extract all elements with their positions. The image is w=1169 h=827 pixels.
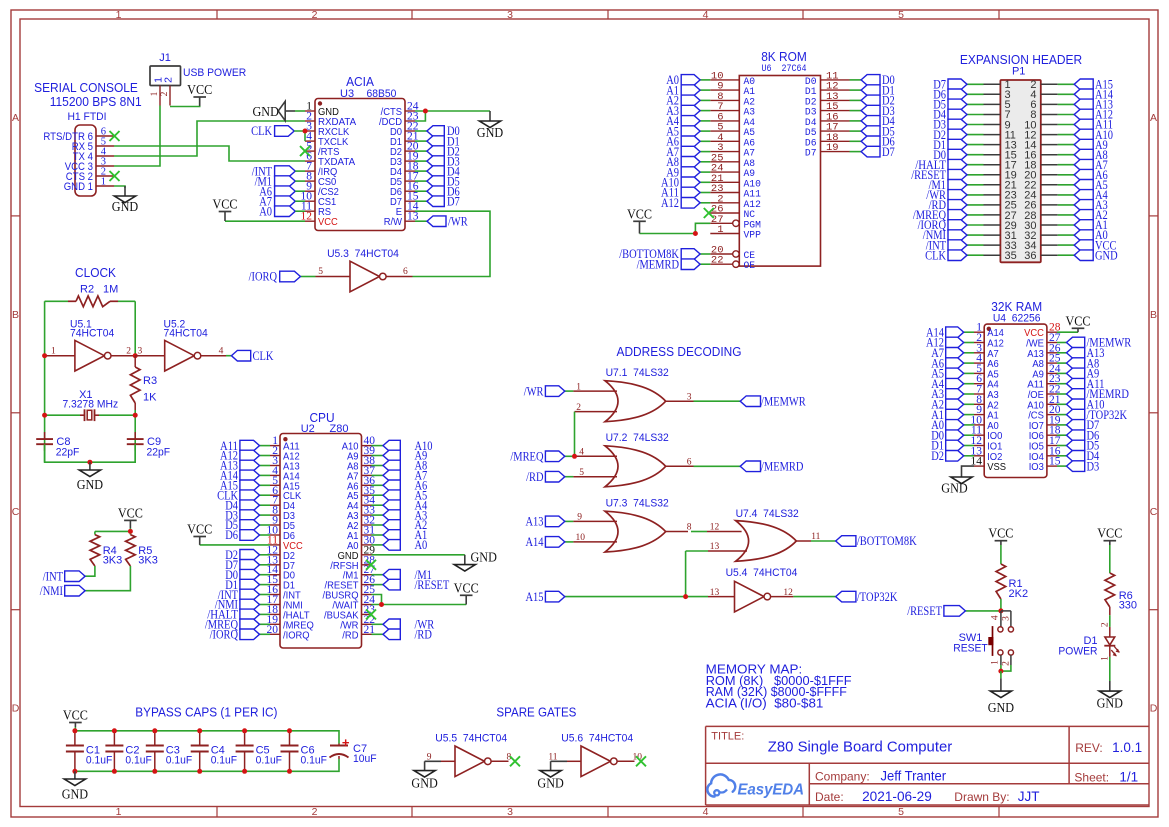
- svg-text:R/W: R/W: [384, 216, 402, 228]
- svg-text:VCC: VCC: [454, 581, 479, 596]
- svg-text:1M: 1M: [103, 283, 118, 295]
- svg-text:U6 27C64: U6 27C64: [762, 63, 807, 75]
- svg-text:1: 1: [51, 347, 56, 357]
- svg-text:74HCT04: 74HCT04: [70, 328, 114, 340]
- svg-text:1: 1: [116, 806, 122, 818]
- svg-text:TITLE:: TITLE:: [711, 731, 744, 743]
- svg-text:330: 330: [1119, 600, 1137, 612]
- svg-text:2: 2: [312, 806, 318, 818]
- svg-text:C: C: [12, 506, 20, 518]
- svg-text:D7: D7: [882, 144, 895, 159]
- svg-text:POWER: POWER: [1058, 645, 1097, 657]
- svg-text:CLK: CLK: [251, 123, 272, 138]
- svg-text:RESET: RESET: [953, 643, 988, 655]
- svg-text:U5.3 74HCT04: U5.3 74HCT04: [327, 248, 399, 260]
- svg-text:3: 3: [507, 9, 513, 21]
- svg-text:/INT: /INT: [43, 568, 63, 583]
- svg-text:USB POWER: USB POWER: [183, 67, 246, 79]
- svg-text:1: 1: [717, 224, 723, 236]
- svg-text:/NMI: /NMI: [40, 583, 63, 598]
- svg-text:CLK: CLK: [253, 348, 274, 363]
- svg-text:10uF: 10uF: [353, 753, 377, 765]
- svg-text:/IORQ: /IORQ: [249, 269, 278, 284]
- svg-text:3: 3: [687, 392, 692, 402]
- svg-text:0.1uF: 0.1uF: [125, 754, 152, 766]
- svg-text:R3: R3: [143, 375, 157, 387]
- svg-text:0.1uF: 0.1uF: [301, 754, 328, 766]
- svg-text:2: 2: [160, 91, 170, 96]
- svg-text:3K3: 3K3: [103, 555, 123, 567]
- svg-text:Date:: Date:: [815, 790, 844, 804]
- svg-text:SERIAL CONSOLE: SERIAL CONSOLE: [34, 80, 138, 95]
- svg-text:2: 2: [576, 403, 581, 413]
- svg-text:C: C: [1150, 506, 1158, 518]
- svg-text:A: A: [1150, 112, 1157, 124]
- svg-text:4: 4: [703, 9, 709, 21]
- svg-text:ADDRESS DECODING: ADDRESS DECODING: [617, 344, 742, 359]
- svg-text:9: 9: [577, 513, 582, 523]
- svg-text:A15: A15: [526, 589, 544, 604]
- svg-text:1: 1: [991, 660, 1001, 665]
- svg-text:/MREQ: /MREQ: [510, 449, 544, 464]
- svg-text:VCC: VCC: [627, 207, 652, 222]
- svg-text:/RESET: /RESET: [415, 577, 450, 592]
- svg-text:5: 5: [579, 468, 584, 478]
- svg-text:VCC: VCC: [187, 83, 212, 98]
- svg-text:A0: A0: [259, 203, 272, 218]
- svg-text:D3: D3: [1087, 458, 1100, 473]
- svg-text:12: 12: [783, 588, 793, 598]
- svg-text:A: A: [12, 112, 19, 124]
- svg-text:Drawn By:: Drawn By:: [954, 790, 1009, 804]
- svg-text:GND: GND: [477, 126, 503, 141]
- svg-text:7.3278 MHz: 7.3278 MHz: [62, 399, 118, 411]
- svg-text:D6: D6: [225, 527, 238, 542]
- svg-text:J1: J1: [159, 52, 171, 64]
- svg-text:3K3: 3K3: [138, 555, 158, 567]
- svg-text:P1: P1: [1012, 66, 1025, 78]
- svg-text:4: 4: [703, 806, 709, 818]
- svg-text:5: 5: [898, 806, 904, 818]
- svg-text:0.1uF: 0.1uF: [211, 754, 238, 766]
- svg-text:B: B: [1150, 309, 1157, 321]
- svg-text:ACIA (I/O) $80-$81: ACIA (I/O) $80-$81: [706, 695, 824, 710]
- svg-text:GND: GND: [988, 701, 1014, 716]
- svg-text:VCC: VCC: [118, 506, 143, 521]
- svg-text:GND: GND: [411, 776, 437, 791]
- svg-text:U4 62256: U4 62256: [993, 312, 1041, 324]
- svg-text:Sheet:: Sheet:: [1074, 771, 1109, 785]
- svg-text:6: 6: [687, 458, 692, 468]
- svg-text:VCC: VCC: [988, 527, 1013, 542]
- svg-text:D7: D7: [805, 148, 817, 160]
- svg-text:5: 5: [898, 9, 904, 21]
- svg-text:U7.4 74LS32: U7.4 74LS32: [736, 508, 799, 520]
- svg-text:/RD: /RD: [415, 627, 432, 642]
- svg-text:1/1: 1/1: [1119, 770, 1138, 785]
- svg-text:VCC: VCC: [318, 216, 338, 228]
- svg-text:OE: OE: [744, 260, 756, 272]
- svg-text:/IORQ: /IORQ: [210, 627, 239, 642]
- svg-text:35: 35: [1005, 250, 1017, 262]
- svg-text:VSS: VSS: [987, 461, 1006, 473]
- svg-text:Company:: Company:: [815, 770, 870, 784]
- svg-text:/WR: /WR: [448, 213, 468, 228]
- svg-text:/MEMRD: /MEMRD: [761, 459, 803, 474]
- svg-text:VPP: VPP: [744, 230, 761, 242]
- svg-text:SPARE GATES: SPARE GATES: [496, 705, 576, 720]
- svg-text:22: 22: [711, 255, 724, 267]
- svg-text:8K ROM: 8K ROM: [761, 49, 807, 64]
- svg-text:0.1uF: 0.1uF: [166, 754, 193, 766]
- svg-text:11: 11: [548, 752, 557, 762]
- svg-text:GND: GND: [537, 776, 563, 791]
- svg-text:12: 12: [710, 523, 720, 533]
- svg-text:B: B: [12, 309, 19, 321]
- svg-text:H1 FTDI: H1 FTDI: [67, 111, 106, 123]
- svg-text:VCC: VCC: [1097, 527, 1122, 542]
- svg-text:9: 9: [427, 752, 432, 762]
- svg-text:IO3: IO3: [1029, 461, 1044, 473]
- svg-text:2: 2: [312, 9, 318, 21]
- svg-text:U5.6 74HCT04: U5.6 74HCT04: [561, 733, 633, 745]
- svg-text:/RD: /RD: [342, 629, 359, 641]
- svg-text:U5.4 74HCT04: U5.4 74HCT04: [726, 567, 798, 579]
- svg-text:0.1uF: 0.1uF: [86, 754, 113, 766]
- svg-text:2021-06-29: 2021-06-29: [862, 789, 932, 804]
- svg-text:A0: A0: [415, 537, 428, 552]
- svg-text:GND: GND: [77, 478, 103, 493]
- svg-text:2: 2: [1100, 622, 1110, 627]
- svg-text:5: 5: [318, 267, 323, 277]
- svg-text:GND: GND: [941, 481, 967, 496]
- svg-text:6: 6: [403, 267, 408, 277]
- svg-text:U7.1 74LS32: U7.1 74LS32: [606, 367, 669, 379]
- svg-text:U7.3 74LS32: U7.3 74LS32: [606, 498, 669, 510]
- svg-text:Z80 Single Board Computer: Z80 Single Board Computer: [768, 739, 952, 756]
- svg-text:D: D: [1150, 703, 1158, 715]
- svg-text:36: 36: [1024, 250, 1036, 262]
- svg-text:1: 1: [150, 91, 160, 96]
- svg-text:10: 10: [576, 533, 586, 543]
- svg-text:ACIA: ACIA: [346, 74, 374, 89]
- svg-text:/IORQ: /IORQ: [283, 629, 310, 641]
- svg-text:1: 1: [1100, 656, 1110, 661]
- svg-text:4: 4: [219, 347, 224, 357]
- svg-text:GND 1: GND 1: [64, 181, 93, 193]
- svg-text:19: 19: [826, 142, 839, 154]
- svg-text:13: 13: [710, 542, 720, 552]
- svg-text:/MEMRD: /MEMRD: [637, 256, 679, 271]
- svg-text:U5.5 74HCT04: U5.5 74HCT04: [435, 733, 507, 745]
- svg-text:3: 3: [507, 806, 513, 818]
- svg-text:A14: A14: [526, 534, 544, 549]
- svg-text:Jeff Tranter: Jeff Tranter: [881, 769, 947, 784]
- svg-text:VCC: VCC: [187, 523, 212, 538]
- svg-text:/MEMWR: /MEMWR: [761, 393, 806, 408]
- svg-text:2K2: 2K2: [1009, 588, 1029, 600]
- svg-text:4: 4: [579, 448, 584, 458]
- svg-text:VCC: VCC: [212, 198, 237, 213]
- svg-text:1: 1: [576, 382, 581, 392]
- svg-text:0.1uF: 0.1uF: [256, 754, 283, 766]
- svg-text:D2: D2: [931, 448, 944, 463]
- svg-text:R2: R2: [80, 283, 94, 295]
- svg-text:GND: GND: [253, 105, 279, 120]
- svg-text:REV:: REV:: [1075, 741, 1103, 755]
- svg-text:13: 13: [710, 588, 720, 598]
- svg-text:BYPASS CAPS (1 PER IC): BYPASS CAPS (1 PER IC): [135, 705, 277, 720]
- svg-text:GND: GND: [471, 551, 497, 566]
- svg-text:/WR: /WR: [524, 383, 544, 398]
- svg-text:A12: A12: [661, 195, 679, 210]
- svg-text:GND: GND: [1095, 247, 1118, 262]
- svg-text:CLOCK: CLOCK: [75, 265, 116, 280]
- svg-text:A13: A13: [526, 514, 544, 529]
- svg-text:/RESET: /RESET: [907, 603, 942, 618]
- svg-text:GND: GND: [62, 788, 88, 803]
- svg-text:D: D: [12, 703, 20, 715]
- svg-text:GND: GND: [112, 200, 138, 215]
- svg-text:2: 2: [163, 77, 175, 83]
- svg-text:2: 2: [1002, 661, 1012, 666]
- svg-text:/RD: /RD: [526, 469, 543, 484]
- svg-text:4: 4: [991, 615, 1001, 620]
- svg-text:VCC: VCC: [63, 709, 88, 724]
- svg-text:22pF: 22pF: [56, 446, 80, 458]
- svg-text:/TOP32K: /TOP32K: [857, 589, 898, 604]
- svg-text:3: 3: [1002, 616, 1012, 621]
- svg-text:22pF: 22pF: [147, 446, 171, 458]
- svg-text:D7: D7: [447, 193, 460, 208]
- svg-text:EasyEDA: EasyEDA: [738, 782, 805, 799]
- svg-text:GND: GND: [1097, 696, 1123, 711]
- svg-text:1: 1: [116, 9, 122, 21]
- svg-text:2: 2: [126, 347, 131, 357]
- svg-text:/BOTTOM8K: /BOTTOM8K: [857, 533, 917, 548]
- svg-text:CLK: CLK: [925, 247, 946, 262]
- svg-text:U7.2 74LS32: U7.2 74LS32: [606, 432, 669, 444]
- svg-text:115200 BPS 8N1: 115200 BPS 8N1: [50, 94, 142, 109]
- svg-text:1.0.1: 1.0.1: [1112, 740, 1142, 755]
- svg-text:VCC: VCC: [1065, 314, 1090, 329]
- svg-text:JJT: JJT: [1018, 789, 1040, 804]
- svg-text:74HCT04: 74HCT04: [164, 328, 208, 340]
- svg-text:+: +: [342, 735, 350, 750]
- svg-text:1K: 1K: [143, 392, 157, 404]
- svg-text:1: 1: [101, 177, 106, 188]
